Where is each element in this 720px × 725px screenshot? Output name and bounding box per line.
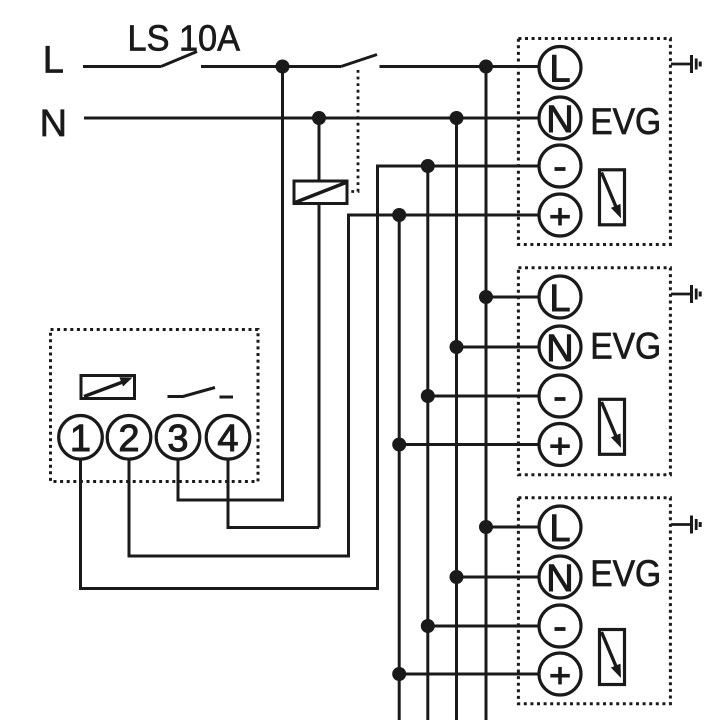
EVG3 ballast enclosure dotted box <box>518 498 670 704</box>
EVG1 terminal plus <box>539 194 581 236</box>
wire terminal 3 riser to L <box>178 67 283 501</box>
svg-text:EVG: EVG <box>590 553 661 594</box>
node junction plus bus <box>392 208 406 222</box>
EVG3 terminal N <box>539 556 581 600</box>
EVG2 lamp symbol <box>600 399 625 454</box>
svg-text:EVG: EVG <box>590 101 661 142</box>
wire N bus vertical <box>455 118 458 720</box>
svg-text:N: N <box>546 328 573 370</box>
node junction N / coil <box>312 111 326 125</box>
svg-text:1: 1 <box>70 418 91 460</box>
svg-text:L: L <box>549 48 570 90</box>
EVG2 terminal plus <box>539 424 581 466</box>
circuit breaker S1 LS 10A blade <box>161 52 197 67</box>
EVG2 terminal minus <box>539 375 581 417</box>
svg-text:3: 3 <box>167 418 188 460</box>
EVG1 terminal N <box>539 97 581 141</box>
EVG1 ballast enclosure dotted box <box>518 39 670 245</box>
U1 terminal 2 <box>107 416 151 461</box>
wire L feed <box>83 65 161 68</box>
EVG2 terminal N <box>539 326 581 370</box>
node junction minus bus <box>421 159 435 173</box>
node junction EVG3 N <box>450 570 464 584</box>
node junction EVG2 L <box>479 290 493 304</box>
EVG1 terminal minus <box>539 145 581 187</box>
relay contact K1 blade <box>341 55 377 67</box>
relay coil K1 <box>294 181 347 204</box>
wire stub EVG2 minus <box>428 395 539 398</box>
node junction EVG2 minus <box>421 389 435 403</box>
EVG2 terminal L <box>539 276 581 320</box>
U1 terminal 3 <box>156 416 200 461</box>
wire stub EVG3 N <box>457 576 540 579</box>
svg-text:L: L <box>549 508 570 550</box>
EVG3 ground symbol <box>671 516 700 534</box>
relay coil K1 diagonal <box>295 183 346 203</box>
node junction L / terminal3 riser <box>276 60 290 74</box>
wire terminal 1 riser to minus bus <box>81 166 540 589</box>
svg-text:L: L <box>43 40 64 82</box>
wire stub EVG2 N <box>457 346 540 349</box>
node junction EVG3 minus <box>421 619 435 633</box>
svg-text:L: L <box>549 278 570 320</box>
EVG1 ground symbol <box>671 55 700 73</box>
svg-text:EVG: EVG <box>590 326 661 367</box>
wire coil bottom to terminal 4 <box>318 205 321 528</box>
dimmer control unit U1 dotted box <box>51 330 259 482</box>
wire terminal 4 step <box>228 459 319 528</box>
wire stub EVG2 L <box>486 296 539 299</box>
switch symbol in U1 <box>168 388 234 398</box>
svg-text:N: N <box>546 558 573 600</box>
svg-text:N: N <box>546 99 573 141</box>
wire N <box>84 117 539 120</box>
dotted mechanical link relay contact to coil <box>351 70 359 192</box>
wire stub EVG3 L <box>486 526 539 529</box>
svg-text:4: 4 <box>217 418 238 460</box>
EVG1 lamp symbol <box>600 170 625 225</box>
U1 terminal 4 <box>206 416 250 461</box>
EVG3 lamp symbol <box>600 630 625 685</box>
node junction L bus <box>479 60 493 74</box>
EVG3 terminal L <box>539 506 581 550</box>
EVG3 terminal minus <box>539 605 581 647</box>
node junction EVG2 plus <box>392 438 406 452</box>
wire minus bus vertical <box>426 166 429 720</box>
wire L from breaker to relay contact <box>201 65 341 68</box>
wire stub EVG2 plus <box>399 443 539 446</box>
wire plus bus vertical <box>398 215 401 720</box>
wire stub EVG3 plus <box>399 673 539 676</box>
svg-text:LS 10A: LS 10A <box>128 18 241 59</box>
node junction EVG3 plus <box>392 667 406 681</box>
svg-text:2: 2 <box>118 418 139 460</box>
node junction EVG2 N <box>450 340 464 354</box>
U1 terminal 1 <box>59 416 103 461</box>
wire terminal 2 riser to plus bus <box>129 215 539 556</box>
node junction N bus <box>450 111 464 125</box>
potentiometer symbol in U1 <box>81 376 135 399</box>
EVG2 ground symbol <box>671 285 700 303</box>
svg-text:N: N <box>40 103 67 145</box>
EVG2 ballast enclosure dotted box <box>518 268 670 475</box>
EVG3 terminal plus <box>539 653 581 695</box>
node junction EVG3 L <box>479 520 493 534</box>
EVG1 terminal L <box>539 47 581 91</box>
wire L bus vertical <box>485 67 488 721</box>
wire coil top <box>318 118 321 180</box>
wire stub EVG3 minus <box>428 625 539 628</box>
wire L from relay contact to EVG1 L <box>380 65 540 68</box>
